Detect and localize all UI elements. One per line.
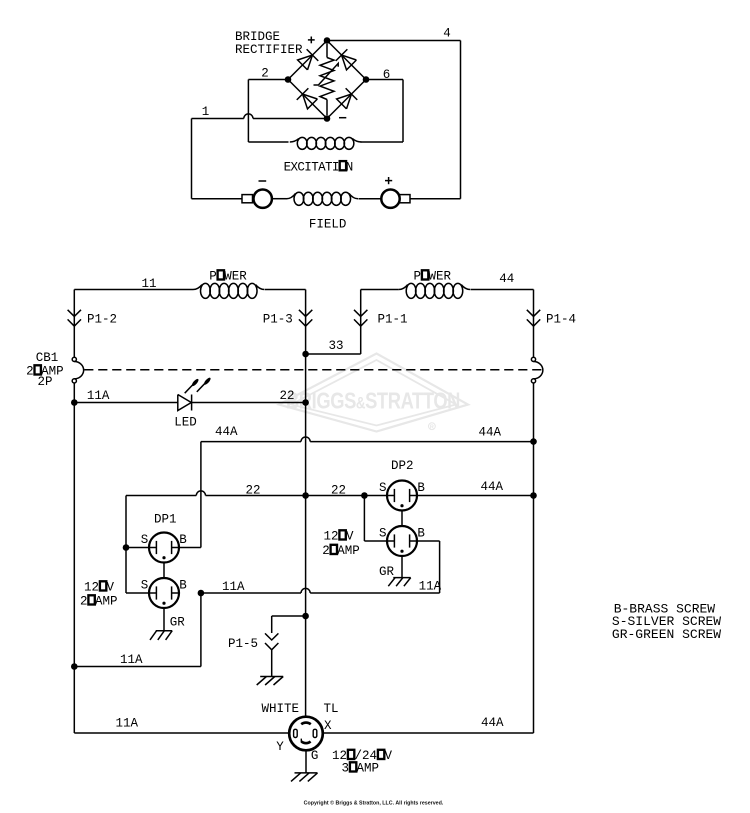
receptacle DP2 top xyxy=(387,481,417,511)
svg-text:G: G xyxy=(311,749,319,763)
label GR (DP2) xyxy=(379,565,395,579)
svg-text:Y: Y xyxy=(276,740,284,754)
svg-text:11: 11 xyxy=(141,277,156,291)
svg-text:4: 4 xyxy=(443,27,451,41)
node left rail / 11A xyxy=(71,663,78,670)
receptacle DP2 bottom xyxy=(387,526,417,556)
wire LED row left xyxy=(74,402,178,404)
wire bridge - to left, with hop xyxy=(192,114,328,119)
label 22 (led row) xyxy=(280,389,295,403)
svg-text:1: 1 xyxy=(202,105,210,119)
svg-text:44: 44 xyxy=(499,272,514,286)
svg-text:2: 2 xyxy=(261,67,269,81)
wire node6 to excitation right xyxy=(366,80,403,143)
label 11A (bottom left) xyxy=(116,717,139,731)
wire DP2 strap xyxy=(401,511,403,527)
wire DP1 strap xyxy=(163,563,165,579)
outlet ground slot xyxy=(301,739,310,744)
svg-text:Copyright © Briggs & Stratton,: Copyright © Briggs & Stratton, LLC. All … xyxy=(304,800,444,807)
label 44A (row1 right) xyxy=(479,426,502,440)
label 22 (row right) xyxy=(331,484,346,498)
label B (DP1 bottom) xyxy=(179,579,187,593)
svg-text:20AMP: 20AMP xyxy=(80,595,118,609)
svg-text:11A: 11A xyxy=(120,653,143,667)
wire left vertical (1 to field -) xyxy=(191,119,193,199)
resistor (bridge center) xyxy=(320,44,334,115)
excitation winding xyxy=(248,137,403,149)
label Y xyxy=(276,740,284,754)
wire field right xyxy=(410,198,461,200)
svg-text:22: 22 xyxy=(246,484,261,498)
Briggs & Stratton watermark logo xyxy=(279,354,468,432)
node P1-5 junction xyxy=(302,613,309,620)
svg-text:22: 22 xyxy=(331,484,346,498)
wire bottom row left xyxy=(74,732,289,734)
svg-text:44A: 44A xyxy=(479,426,502,440)
breaker CB1 left pole xyxy=(72,357,83,383)
adjustment arrow across resistor xyxy=(314,63,339,85)
svg-text:P1-1: P1-1 xyxy=(378,312,408,326)
label 44A (bottom right) xyxy=(481,716,504,730)
svg-text:S: S xyxy=(379,527,387,541)
svg-text:RECTIFIER: RECTIFIER xyxy=(235,43,303,57)
power winding 1 wire xyxy=(74,283,305,298)
outlet top slot xyxy=(301,723,311,725)
diode D4 (- node to right node) xyxy=(337,88,358,109)
wire 22 row xyxy=(126,491,387,496)
label P1-5 xyxy=(228,637,258,651)
node LED row / P1-3 xyxy=(302,399,309,406)
node 44A row / right rail xyxy=(530,438,537,445)
svg-text:R: R xyxy=(430,425,434,431)
node DP1 B / 11A row xyxy=(198,590,205,597)
label 44A (row1 left) xyxy=(215,425,238,439)
label BRIDGE RECTIFIER xyxy=(235,30,303,57)
label X xyxy=(324,719,332,733)
svg-text:P1-5: P1-5 xyxy=(228,637,258,651)
left rail lower xyxy=(73,383,75,733)
label 120V 20AMP (DP1) xyxy=(80,581,118,609)
wire DP2 top B to right rail xyxy=(417,495,534,497)
svg-text:20AMP: 20AMP xyxy=(322,544,360,558)
svg-text:33: 33 xyxy=(329,339,344,353)
label 4 xyxy=(443,27,451,41)
svg-text:11A: 11A xyxy=(222,580,245,594)
wire P1-5 ground lead xyxy=(271,650,273,677)
label 33 xyxy=(329,339,344,353)
svg-text:P1-4: P1-4 xyxy=(546,312,576,326)
field winding xyxy=(287,192,382,205)
label P1-3 xyxy=(263,312,293,326)
svg-text:P1-3: P1-3 xyxy=(263,312,293,326)
svg-text:11A: 11A xyxy=(87,389,110,403)
wire DP1 top S stub xyxy=(126,547,149,549)
wire DP1 top B stub xyxy=(179,547,201,549)
node 22 row / P1-3 xyxy=(302,492,309,499)
label S (DP1 bottom) xyxy=(141,579,149,593)
svg-text:11A: 11A xyxy=(116,717,139,731)
wire bridge top to node 4 corner xyxy=(327,40,461,42)
svg-text:44A: 44A xyxy=(481,480,504,494)
legend screws xyxy=(612,601,721,642)
label P1-1 xyxy=(378,312,408,326)
label DP1 xyxy=(154,513,177,527)
wire DP1 bottom S stub xyxy=(126,592,149,594)
connector P1-2 xyxy=(68,310,81,326)
node - (bridge bottom) xyxy=(324,115,347,122)
wire DP1 ground lead xyxy=(163,608,165,631)
label CB1 xyxy=(26,351,64,389)
connector P1-5 xyxy=(265,633,278,649)
wire 22 drop to DP1 xyxy=(125,496,127,594)
ground (DP2) xyxy=(388,578,410,587)
wire 11A bottom row xyxy=(74,666,201,668)
label S (DP2 bottom) xyxy=(379,527,387,541)
svg-text:LED: LED xyxy=(174,415,197,429)
wire LED row right xyxy=(192,402,306,404)
LED D1 xyxy=(178,377,212,411)
wire outlet ground lead xyxy=(305,750,307,773)
outlet right slot xyxy=(313,729,317,737)
wire 44A drop to DP1 B xyxy=(200,442,202,548)
connector P1-3 xyxy=(299,310,312,326)
label 44 xyxy=(499,272,514,286)
ground (DP1) xyxy=(150,631,172,640)
svg-text:X: X xyxy=(324,719,332,733)
wire P1-5 branch xyxy=(272,616,306,633)
connector P1-4 xyxy=(527,310,540,326)
label S (DP2 top) xyxy=(379,481,387,495)
svg-text:B: B xyxy=(417,527,425,541)
label B (DP2 top) xyxy=(417,481,425,495)
svg-text:S: S xyxy=(141,579,149,593)
label 11A (row right) xyxy=(419,580,442,594)
svg-text:DP1: DP1 xyxy=(154,513,177,527)
wire 44A row with hop xyxy=(201,437,534,442)
label POWER 2 xyxy=(414,270,452,284)
node + (bridge top) xyxy=(308,37,330,44)
svg-text:22: 22 xyxy=(280,389,295,403)
label B (DP1 top) xyxy=(179,533,187,547)
wire bottom row right xyxy=(323,732,534,734)
label 22 (row left) xyxy=(246,484,261,498)
node 22 row branch xyxy=(361,492,368,499)
wire node2 to excitation xyxy=(248,80,288,143)
svg-text:GR: GR xyxy=(170,616,186,630)
diode D1 (left node to + node) xyxy=(298,49,319,70)
receptacle DP1 bottom xyxy=(149,578,179,608)
ground (P1-5) xyxy=(257,677,284,686)
svg-text:44A: 44A xyxy=(481,716,504,730)
label EXCITATION xyxy=(284,160,353,174)
field + terminal xyxy=(381,177,410,208)
diode D2 (right node to + node) xyxy=(336,49,357,70)
rail P1-3 xyxy=(305,290,307,717)
svg-text:FIELD: FIELD xyxy=(309,218,347,232)
label P1-2 xyxy=(87,312,117,326)
label LED xyxy=(174,415,197,429)
svg-text:44A: 44A xyxy=(215,425,238,439)
label 44A (22 row right) xyxy=(481,480,504,494)
wire P1-1 drop to 33 xyxy=(306,290,361,355)
svg-text:11A: 11A xyxy=(419,580,442,594)
svg-text:2P: 2P xyxy=(38,375,53,389)
label 120V 20AMP (DP2) xyxy=(322,530,360,559)
svg-text:S: S xyxy=(379,481,387,495)
svg-text:WHITE: WHITE xyxy=(262,702,300,716)
wire DP2 branch down xyxy=(364,496,387,542)
label G xyxy=(311,749,319,763)
right rail upper xyxy=(533,290,535,358)
ground (outlet) xyxy=(291,773,318,782)
svg-text:B: B xyxy=(179,579,187,593)
label 11A (row left) xyxy=(222,580,245,594)
label B (DP2 bottom) xyxy=(417,527,425,541)
breaker dashed link xyxy=(84,369,541,371)
svg-text:B: B xyxy=(179,533,187,547)
receptacle DP1 top xyxy=(149,533,179,563)
wire 11A drop xyxy=(200,593,202,667)
wire 11A row with hop xyxy=(201,588,440,593)
outlet left slot xyxy=(294,729,298,737)
wire DP2 ground lead xyxy=(401,556,403,578)
field - terminal xyxy=(242,181,272,208)
label S (DP1 top) xyxy=(141,533,149,547)
copyright line xyxy=(304,800,444,807)
label WHITE xyxy=(262,702,300,716)
svg-text:P1-2: P1-2 xyxy=(87,312,117,326)
node DP1 S junction xyxy=(123,544,130,551)
wire DP2 bottom B right-down xyxy=(417,541,440,593)
wire field left xyxy=(192,198,243,200)
svg-text:GR: GR xyxy=(379,565,395,579)
svg-text:POWER: POWER xyxy=(209,270,247,284)
svg-text:S: S xyxy=(141,533,149,547)
node 6 (bridge right) xyxy=(363,68,391,83)
label TL xyxy=(324,702,339,716)
label 1 xyxy=(202,105,210,119)
diode D3 (- node to left node) xyxy=(297,88,318,109)
power winding 2 wire xyxy=(361,283,534,298)
left rail upper xyxy=(73,290,75,358)
label GR (DP1) xyxy=(170,616,186,630)
label 30AMP xyxy=(342,762,380,776)
label DP2 xyxy=(391,459,414,473)
outlet TL circle xyxy=(289,717,323,751)
bridge rectifier diamond frame xyxy=(288,41,366,119)
right rail lower xyxy=(533,383,535,733)
label 11A (led row) xyxy=(87,389,110,403)
label 120/240V xyxy=(332,749,393,763)
svg-text:GR-GREEN SCREW: GR-GREEN SCREW xyxy=(612,627,721,642)
svg-text:DP2: DP2 xyxy=(391,459,414,473)
node 33 junction xyxy=(302,351,309,358)
label FIELD xyxy=(309,218,347,232)
wire field - to coil xyxy=(272,198,287,200)
label 11A (left rail row) xyxy=(120,653,143,667)
node 2 (bridge left) xyxy=(261,67,291,83)
breaker CB1 right pole xyxy=(531,357,542,383)
node 22 row / right rail xyxy=(530,492,537,499)
label POWER 1 xyxy=(209,270,247,284)
node left rail / LED row xyxy=(71,399,78,406)
svg-text:30AMP: 30AMP xyxy=(342,762,380,776)
svg-text:B: B xyxy=(417,481,425,495)
label 11 xyxy=(141,277,156,291)
svg-text:CB1: CB1 xyxy=(36,351,59,365)
label P1-4 xyxy=(546,312,576,326)
svg-text:POWER: POWER xyxy=(414,270,452,284)
connector P1-1 xyxy=(354,310,367,326)
wire right vertical (4 to field +) xyxy=(460,41,462,199)
svg-text:TL: TL xyxy=(324,702,339,716)
svg-text:BRIGGS&STRATTON: BRIGGS&STRATTON xyxy=(286,388,460,414)
